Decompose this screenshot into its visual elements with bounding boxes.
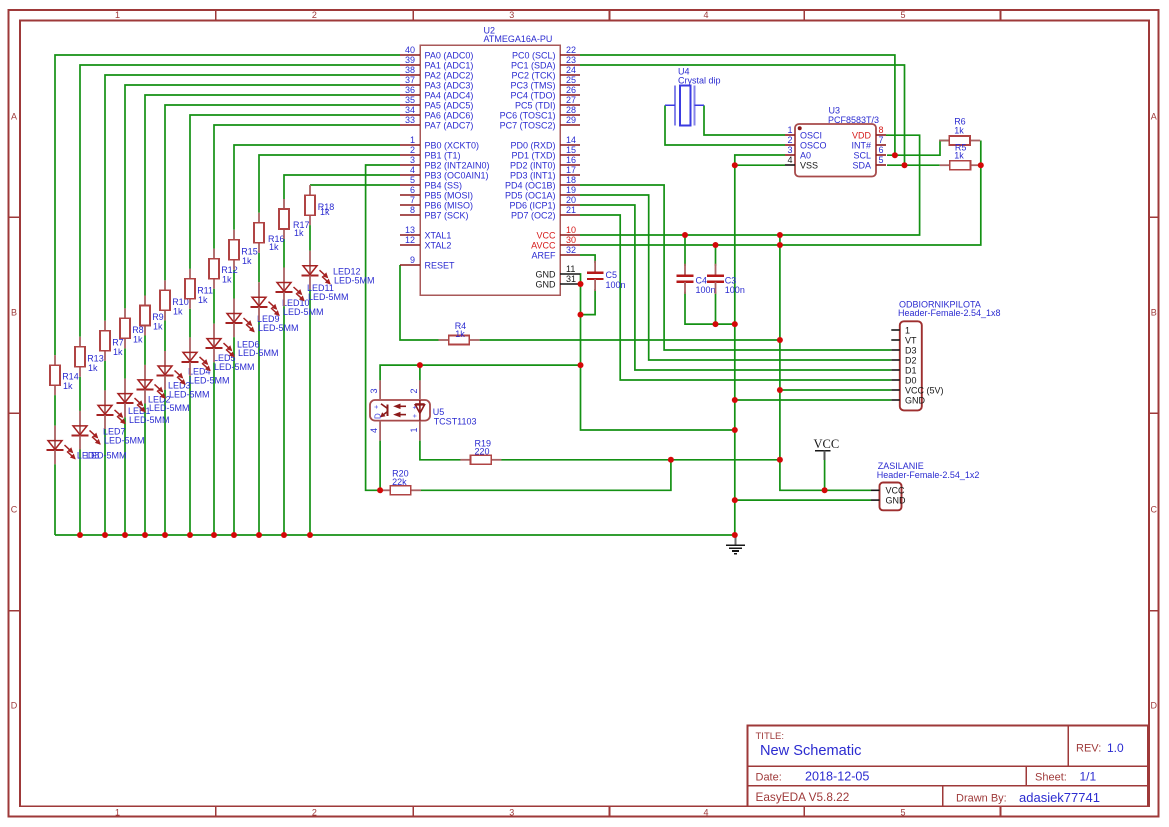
svg-text:37: 37	[405, 75, 415, 85]
capacitor C3 100n	[707, 264, 745, 295]
svg-text:PD0 (RXD): PD0 (RXD)	[510, 140, 555, 150]
svg-text:1k: 1k	[88, 363, 98, 373]
svg-text:New Schematic: New Schematic	[760, 743, 861, 759]
svg-text:3: 3	[369, 388, 379, 393]
svg-text:XTAL1: XTAL1	[425, 230, 452, 240]
svg-text:INT#: INT#	[851, 140, 871, 150]
wire PB2 to R20	[366, 165, 400, 490]
wire U5 pin1 to R19	[420, 441, 461, 460]
capacitor C4 100n	[677, 264, 716, 295]
svg-text:8: 8	[879, 125, 884, 135]
svg-text:LED-5MM: LED-5MM	[308, 292, 349, 302]
svg-text:D1: D1	[905, 365, 917, 375]
svg-text:PD5 (OC1A): PD5 (OC1A)	[505, 190, 556, 200]
svg-text:30: 30	[566, 235, 576, 245]
svg-text:LED-5MM: LED-5MM	[86, 450, 127, 460]
svg-text:AVCC: AVCC	[531, 240, 556, 250]
resistor R16 1k	[254, 213, 285, 253]
wire C4 C3 bottom	[685, 292, 735, 324]
wire PA3 net	[125, 85, 400, 308]
svg-text:1/1: 1/1	[1080, 770, 1097, 784]
svg-text:PD2 (INT0): PD2 (INT0)	[510, 160, 556, 170]
wire PA1 net	[80, 65, 400, 337]
svg-text:7: 7	[410, 195, 415, 205]
ic U3 PCF8583T/3	[785, 106, 886, 177]
svg-text:PB1 (T1): PB1 (T1)	[425, 150, 461, 160]
wire R11 to LED5	[189, 309, 191, 338]
svg-text:VCC: VCC	[814, 437, 840, 451]
svg-text:13: 13	[405, 225, 415, 235]
LED LED5 LED-5MM	[182, 337, 255, 376]
svg-text:1: 1	[409, 427, 419, 432]
svg-text:1k: 1k	[954, 151, 964, 161]
svg-text:SDA: SDA	[852, 160, 871, 170]
svg-text:1k: 1k	[320, 207, 330, 217]
wire C4 top	[684, 235, 686, 266]
svg-text:+: +	[412, 414, 419, 418]
svg-text:4: 4	[369, 428, 379, 433]
LED LED7 LED-5MM	[72, 411, 145, 450]
svg-text:TITLE:: TITLE:	[756, 731, 785, 742]
resistor R14 1k	[50, 355, 79, 395]
svg-text:23: 23	[566, 55, 576, 65]
svg-text:1: 1	[115, 10, 120, 20]
svg-text:9: 9	[410, 255, 415, 265]
svg-text:2: 2	[787, 135, 792, 145]
resistor R10 1k	[160, 280, 189, 320]
wire LED12 to bus	[309, 289, 311, 535]
svg-text:PA0 (ADC0): PA0 (ADC0)	[425, 50, 474, 60]
svg-text:VDD: VDD	[852, 130, 872, 140]
resistor R9 1k	[140, 296, 164, 336]
svg-text:10: 10	[566, 225, 576, 235]
svg-text:1k: 1k	[242, 256, 252, 266]
wire R18 to LED12	[309, 225, 311, 251]
wire PD7 to D0	[580, 215, 891, 380]
svg-text:PB7 (SCK): PB7 (SCK)	[425, 210, 469, 220]
wire LED10 to bus	[258, 321, 260, 535]
wire PB3 net	[284, 175, 400, 199]
svg-text:1k: 1k	[455, 329, 465, 339]
wire R4 to VCC net	[480, 339, 780, 341]
resistor R6 1k	[939, 117, 980, 145]
capacitor C5 100n	[587, 261, 626, 291]
wire LED7 to bus	[79, 450, 81, 536]
resistor R18 1k	[305, 185, 334, 225]
wire R9 to LED3	[144, 336, 146, 365]
svg-text:PD1 (TXD): PD1 (TXD)	[511, 150, 555, 160]
svg-text:GND: GND	[886, 495, 907, 505]
svg-text:+: +	[412, 405, 419, 409]
svg-text:14: 14	[566, 135, 576, 145]
svg-text:D3: D3	[905, 345, 917, 355]
svg-text:R15: R15	[241, 246, 258, 256]
resistor R19 220	[460, 438, 501, 464]
svg-text:PA2 (ADC2): PA2 (ADC2)	[425, 70, 474, 80]
svg-text:22: 22	[566, 45, 576, 55]
LED LED3 LED-5MM	[137, 365, 210, 404]
wire VCC(5V) to header	[780, 389, 891, 391]
LED LED6 LED-5MM	[206, 324, 279, 363]
wire LED3 to bus	[144, 404, 146, 536]
wire PD4 to D3	[580, 185, 891, 350]
wire A0 GND vertical	[735, 155, 785, 535]
svg-text:31: 31	[566, 274, 576, 284]
svg-text:VSS: VSS	[800, 160, 818, 170]
LED LED2 LED-5MM	[117, 379, 190, 418]
wire LED9 to bus	[233, 337, 235, 535]
wire crystal to OSCI	[704, 105, 785, 135]
svg-text:PC2 (TCK): PC2 (TCK)	[511, 70, 555, 80]
wire PB0 net	[234, 145, 400, 230]
svg-text:33: 33	[405, 115, 415, 125]
svg-text:5: 5	[410, 175, 415, 185]
wire PC1 to SDA	[580, 65, 905, 165]
wire PA5 net	[165, 105, 400, 280]
svg-text:R14: R14	[62, 372, 79, 382]
LED LED1 LED-5MM	[97, 390, 170, 429]
svg-text:7: 7	[879, 135, 884, 145]
wire PA2 net	[105, 75, 400, 321]
svg-text:VT: VT	[905, 335, 917, 345]
svg-text:A0: A0	[800, 150, 811, 160]
svg-text:2: 2	[410, 145, 415, 155]
svg-text:1: 1	[905, 325, 910, 335]
svg-text:8: 8	[410, 205, 415, 215]
wire R16 to LED10	[258, 253, 260, 282]
svg-text:GND: GND	[536, 279, 557, 289]
ground symbol	[726, 535, 745, 554]
svg-text:1k: 1k	[173, 306, 183, 316]
svg-text:PB2 (INT2AIN0): PB2 (INT2AIN0)	[425, 160, 490, 170]
svg-text:OSCI: OSCI	[800, 130, 822, 140]
svg-text:PC7 (TOSC2): PC7 (TOSC2)	[500, 120, 556, 130]
svg-text:D2: D2	[905, 355, 917, 365]
LED LED9 LED-5MM	[226, 299, 299, 338]
wire C3 bottom	[715, 292, 717, 324]
svg-text:5: 5	[900, 807, 905, 817]
svg-text:PCF8583T/3: PCF8583T/3	[828, 115, 879, 125]
wire AREF to C5	[580, 255, 595, 263]
svg-text:+: +	[374, 405, 381, 409]
svg-text:D: D	[1151, 701, 1158, 711]
svg-text:LED-5MM: LED-5MM	[258, 323, 299, 333]
svg-text:1k: 1k	[269, 242, 279, 252]
wire R19 to VCC net	[501, 459, 780, 461]
svg-text:PD7 (OC2): PD7 (OC2)	[511, 210, 556, 220]
svg-text:4: 4	[787, 155, 792, 165]
svg-text:1k: 1k	[954, 125, 964, 135]
LED LED4 LED-5MM	[157, 351, 230, 390]
svg-text:R8: R8	[132, 325, 144, 335]
wire LED4 to bus	[164, 390, 166, 535]
wire R12 to LED6	[213, 289, 215, 324]
svg-text:40: 40	[405, 45, 415, 55]
svg-text:3: 3	[787, 145, 792, 155]
wire GND pins vertical	[580, 274, 736, 430]
svg-text:R9: R9	[152, 312, 164, 322]
svg-text:D: D	[11, 701, 18, 711]
svg-text:SCL: SCL	[853, 150, 871, 160]
svg-text:3: 3	[410, 155, 415, 165]
svg-text:6: 6	[410, 185, 415, 195]
svg-text:LED-5MM: LED-5MM	[129, 415, 170, 425]
svg-text:100n: 100n	[696, 285, 716, 295]
svg-text:1k: 1k	[222, 275, 232, 285]
svg-text:1k: 1k	[198, 295, 208, 305]
wire U5 pins 3-2 top	[380, 365, 580, 380]
svg-text:A: A	[1151, 112, 1157, 122]
wire LED6 to bus	[213, 362, 215, 535]
svg-text:4: 4	[703, 10, 708, 20]
svg-text:XTAL2: XTAL2	[425, 240, 452, 250]
svg-text:11: 11	[566, 264, 575, 274]
optocoupler U5 TCST1103	[369, 380, 477, 440]
wire AVCC to R5 R6	[580, 141, 981, 246]
svg-text:15: 15	[566, 145, 576, 155]
svg-text:PD3 (INT1): PD3 (INT1)	[510, 170, 556, 180]
resistor R15 1k	[229, 230, 258, 270]
svg-text:1k: 1k	[153, 322, 163, 332]
svg-text:4: 4	[410, 165, 415, 175]
svg-text:LED-5MM: LED-5MM	[334, 275, 375, 285]
resistor R20 22k	[380, 468, 421, 495]
LED LED11 LED-5MM	[276, 268, 349, 307]
wire R13 to LED7	[79, 377, 81, 411]
svg-text:18: 18	[566, 175, 576, 185]
svg-text:25: 25	[566, 75, 576, 85]
wire PA0 net	[55, 55, 400, 355]
svg-text:RESET: RESET	[425, 260, 456, 270]
svg-text:B: B	[1151, 308, 1157, 318]
wire U5 pin2 stub up	[419, 365, 421, 380]
svg-text:OSCO: OSCO	[800, 140, 827, 150]
wire C5 bottom	[581, 289, 596, 315]
svg-text:R12: R12	[221, 265, 238, 275]
svg-text:ATMEGA16A-PU: ATMEGA16A-PU	[484, 34, 553, 44]
resistor R17 1k	[279, 199, 310, 239]
svg-text:2: 2	[312, 807, 317, 817]
svg-text:EasyEDA V5.8.22: EasyEDA V5.8.22	[756, 790, 850, 804]
svg-text:27: 27	[566, 95, 576, 105]
svg-text:VCC (5V): VCC (5V)	[905, 385, 944, 395]
svg-text:GND: GND	[905, 395, 926, 405]
svg-text:100n: 100n	[606, 280, 626, 290]
wire R8 to LED2	[124, 348, 126, 378]
resistor R13 1k	[75, 337, 104, 377]
svg-text:C5: C5	[606, 270, 618, 280]
wire PD6 to D1	[580, 205, 891, 370]
svg-text:32: 32	[566, 245, 576, 255]
wire RESET to R4	[400, 265, 439, 340]
svg-text:21: 21	[566, 205, 576, 215]
LED LED10 LED-5MM	[251, 282, 324, 321]
svg-text:PB6 (MISO): PB6 (MISO)	[425, 200, 474, 210]
svg-text:D: D	[374, 413, 383, 419]
svg-text:PA1 (ADC1): PA1 (ADC1)	[425, 60, 474, 70]
wire PA6 net	[190, 115, 400, 269]
ic U2 ATMEGA16A-PU	[400, 26, 580, 296]
svg-text:17: 17	[566, 165, 576, 175]
wire crystal to OSCO	[665, 105, 785, 145]
svg-text:Header-Female-2.54_1x2: Header-Female-2.54_1x2	[877, 470, 980, 480]
wire R7 to LED1	[104, 361, 106, 391]
wire R10 to LED4	[164, 320, 166, 351]
svg-text:GND: GND	[536, 269, 557, 279]
svg-text:22k: 22k	[392, 477, 407, 487]
svg-text:5: 5	[900, 10, 905, 20]
svg-text:24: 24	[566, 65, 576, 75]
wire SDA to R5	[887, 164, 940, 166]
svg-text:C: C	[1151, 505, 1158, 515]
svg-text:3: 3	[509, 807, 514, 817]
resistor R8 1k	[120, 308, 144, 348]
svg-text:LED-5MM: LED-5MM	[169, 390, 210, 400]
wire U5 pin4 down	[379, 441, 381, 491]
svg-text:4: 4	[703, 807, 708, 817]
svg-text:2: 2	[409, 388, 419, 393]
svg-text:VCC: VCC	[536, 230, 556, 240]
wire PA7 net	[214, 125, 400, 249]
svg-text:LED-5MM: LED-5MM	[238, 348, 279, 358]
resistor R7 1k	[100, 321, 124, 361]
wire VCC flag down	[824, 460, 826, 491]
svg-text:PB0 (XCKT0): PB0 (XCKT0)	[425, 140, 480, 150]
svg-text:PA7 (ADC7): PA7 (ADC7)	[425, 120, 474, 130]
wire R17 to LED11	[283, 239, 285, 268]
svg-text:Crystal dip: Crystal dip	[678, 76, 721, 86]
wire LED8 to bus	[54, 464, 56, 535]
title block	[748, 726, 1149, 807]
wire R14 to LED8	[54, 395, 56, 426]
resistor R5 1k	[940, 143, 981, 170]
svg-text:1k: 1k	[63, 381, 73, 391]
svg-text:20: 20	[566, 195, 576, 205]
svg-text:100n: 100n	[725, 285, 745, 295]
svg-text:39: 39	[405, 55, 415, 65]
svg-text:16: 16	[566, 155, 576, 165]
svg-text:LED-5MM: LED-5MM	[189, 376, 230, 386]
svg-text:Sheet:: Sheet:	[1035, 772, 1067, 784]
svg-text:LED-5MM: LED-5MM	[283, 307, 324, 317]
svg-text:38: 38	[405, 65, 415, 75]
svg-text:B: B	[11, 308, 17, 318]
svg-text:6: 6	[879, 145, 884, 155]
wire PB1 net	[259, 155, 400, 213]
wire LED1 to bus	[104, 429, 106, 535]
svg-text:1: 1	[115, 807, 120, 817]
svg-text:PA5 (ADC5): PA5 (ADC5)	[425, 100, 474, 110]
wire LED2 to bus	[124, 417, 126, 535]
svg-text:1k: 1k	[113, 347, 123, 357]
svg-text:PB3 (OC0AIN1): PB3 (OC0AIN1)	[425, 170, 489, 180]
resistor R12 1k	[209, 249, 238, 289]
svg-text:PA3 (ADC3): PA3 (ADC3)	[425, 80, 474, 90]
crystal U4 Crystal dip	[665, 66, 721, 125]
svg-text:29: 29	[566, 115, 576, 125]
svg-text:36: 36	[405, 85, 415, 95]
svg-text:PD4 (OC1B): PD4 (OC1B)	[505, 180, 556, 190]
svg-text:A: A	[11, 112, 17, 122]
svg-text:3: 3	[509, 10, 514, 20]
wire LED11 to bus	[283, 306, 285, 535]
connector ZASILANIE Header-Female-2.54_1x2	[871, 461, 979, 510]
svg-text:220: 220	[475, 447, 490, 457]
svg-text:12: 12	[405, 235, 415, 245]
wire header GND	[735, 399, 892, 401]
wire PB4 net	[310, 184, 400, 186]
svg-text:D0: D0	[905, 375, 917, 385]
wire LED5 to bus	[189, 376, 191, 535]
LED LED12 LED-5MM	[302, 251, 375, 290]
svg-text:1: 1	[410, 135, 415, 145]
wire VCC vertical to ZASILANIE	[780, 235, 871, 490]
wire PA4 net	[145, 95, 400, 296]
wire C3 top	[715, 245, 717, 266]
svg-text:34: 34	[405, 105, 415, 115]
svg-text:PA6 (ADC6): PA6 (ADC6)	[425, 110, 474, 120]
svg-text:TCST1103: TCST1103	[434, 416, 477, 426]
svg-text:VCC: VCC	[886, 486, 906, 496]
wire SCL to R6	[887, 141, 949, 156]
svg-text:5: 5	[879, 155, 884, 165]
svg-text:PC4 (TDO): PC4 (TDO)	[511, 90, 556, 100]
svg-text:1.0: 1.0	[1107, 741, 1124, 755]
svg-text:AREF: AREF	[531, 250, 556, 260]
svg-text:Drawn By:: Drawn By:	[956, 793, 1007, 805]
svg-text:LED-5MM: LED-5MM	[149, 403, 190, 413]
svg-text:R13: R13	[87, 353, 104, 363]
resistor R11 1k	[185, 269, 213, 309]
power flag VCC	[814, 437, 840, 460]
svg-text:PC0 (SCL): PC0 (SCL)	[512, 50, 556, 60]
svg-text:LED-5MM: LED-5MM	[104, 436, 145, 446]
svg-text:PC5 (TDI): PC5 (TDI)	[515, 100, 556, 110]
svg-text:PC6 (TOSC1): PC6 (TOSC1)	[500, 110, 556, 120]
svg-text:adasiek77741: adasiek77741	[1019, 790, 1100, 805]
svg-text:PB5 (MOSI): PB5 (MOSI)	[425, 190, 474, 200]
wire VSS	[735, 164, 785, 166]
svg-text:PC1 (SDA): PC1 (SDA)	[511, 60, 556, 70]
svg-text:Header-Female-2.54_1x8: Header-Female-2.54_1x8	[898, 308, 1001, 318]
svg-text:Date:: Date:	[756, 772, 782, 784]
svg-text:19: 19	[566, 185, 576, 195]
svg-text:1: 1	[787, 125, 792, 135]
wire ZASILANIE GND	[735, 499, 871, 501]
svg-text:2: 2	[312, 10, 317, 20]
svg-text:PC3 (TMS): PC3 (TMS)	[511, 80, 556, 90]
svg-text:PD6 (ICP1): PD6 (ICP1)	[509, 200, 555, 210]
svg-text:R11: R11	[197, 285, 213, 295]
connector ODBIORNIKPILOTA Header-Female-2.54_1x8	[891, 300, 1000, 411]
resistor R4 1k	[439, 321, 480, 344]
svg-text:28: 28	[566, 105, 576, 115]
svg-text:C: C	[11, 505, 18, 515]
svg-text:PA4 (ADC4): PA4 (ADC4)	[425, 90, 474, 100]
LED LED8 LED-5MM	[47, 426, 127, 465]
svg-text:REV:: REV:	[1076, 743, 1101, 755]
svg-text:1k: 1k	[294, 228, 304, 238]
wire R20 to R19 junction	[421, 460, 671, 491]
svg-text:35: 35	[405, 95, 415, 105]
wire VCC pin10 to U3 VDD	[580, 135, 920, 235]
svg-text:PB4 (SS): PB4 (SS)	[425, 180, 463, 190]
wire PD5 to D2	[580, 195, 891, 360]
svg-text:2018-12-05: 2018-12-05	[805, 770, 869, 784]
wire R15 to LED9	[233, 270, 235, 299]
wire LED ground bus	[55, 534, 736, 536]
svg-text:LED-5MM: LED-5MM	[214, 362, 255, 372]
